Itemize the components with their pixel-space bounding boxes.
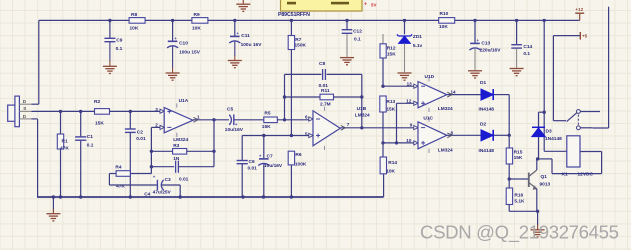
- svg-text:C9: C9: [116, 37, 122, 43]
- svg-text:P89C51RFFN: P89C51RFFN: [278, 12, 310, 18]
- svg-text:R4: R4: [115, 165, 121, 171]
- svg-text:1N: 1N: [173, 156, 180, 162]
- svg-text:R15: R15: [514, 150, 523, 156]
- svg-text:LM324: LM324: [355, 112, 370, 118]
- svg-text:C10: C10: [179, 40, 188, 46]
- svg-text:10K: 10K: [386, 169, 395, 175]
- svg-text:R7: R7: [295, 37, 301, 43]
- svg-text:0.1: 0.1: [87, 143, 94, 149]
- svg-text:15K: 15K: [386, 106, 395, 112]
- svg-text:9013: 9013: [540, 181, 551, 187]
- svg-text:100K: 100K: [295, 161, 307, 167]
- svg-text:1N4148: 1N4148: [545, 136, 562, 142]
- svg-text:7: 7: [347, 122, 350, 127]
- svg-text:47u/25V: 47u/25V: [153, 190, 172, 196]
- svg-text:C7: C7: [267, 153, 273, 159]
- svg-text:5.1v: 5.1v: [413, 43, 423, 49]
- svg-text:R9: R9: [194, 12, 200, 18]
- svg-text:47K: 47K: [60, 146, 69, 152]
- svg-text:R10: R10: [440, 11, 449, 17]
- svg-text:10K: 10K: [192, 26, 201, 32]
- svg-text:R3: R3: [173, 143, 179, 149]
- svg-text:S: S: [23, 106, 26, 111]
- svg-text:LM324: LM324: [438, 106, 453, 112]
- svg-text:IN4148: IN4148: [479, 106, 495, 112]
- svg-text:+: +: [364, 2, 367, 8]
- svg-text:C8: C8: [319, 61, 325, 67]
- svg-text:6: 6: [305, 114, 308, 119]
- svg-text:C1: C1: [87, 134, 93, 140]
- svg-text:10u/16V: 10u/16V: [264, 163, 283, 169]
- svg-text:100u 15V: 100u 15V: [179, 49, 201, 55]
- svg-text:ZD1: ZD1: [413, 34, 422, 40]
- svg-text:K1: K1: [562, 171, 568, 177]
- svg-text:LM324: LM324: [173, 137, 188, 143]
- svg-text:10: 10: [406, 138, 412, 143]
- svg-text:+12: +12: [575, 7, 583, 12]
- svg-text:15K: 15K: [262, 124, 271, 130]
- svg-text:CSDN @Q_2193276455: CSDN @Q_2193276455: [420, 221, 619, 243]
- svg-text:Q1: Q1: [541, 174, 548, 180]
- svg-text:+: +: [235, 122, 238, 127]
- svg-text:C12: C12: [353, 29, 362, 35]
- svg-text:R16: R16: [514, 192, 523, 198]
- svg-text:2: 2: [155, 122, 158, 127]
- svg-text:+: +: [174, 36, 177, 41]
- svg-text:LM324: LM324: [438, 147, 453, 153]
- svg-text:3: 3: [155, 107, 158, 112]
- svg-text:2.7M: 2.7M: [320, 101, 331, 107]
- svg-text:0.01: 0.01: [136, 136, 146, 142]
- svg-text:12VDC: 12VDC: [578, 171, 594, 177]
- svg-text:R11: R11: [321, 88, 330, 94]
- svg-text:15K: 15K: [387, 52, 396, 58]
- svg-text:9: 9: [410, 123, 413, 128]
- svg-text:C6: C6: [249, 159, 255, 165]
- svg-text:0.1: 0.1: [116, 46, 123, 52]
- svg-text:D2: D2: [480, 122, 486, 128]
- svg-text:15K: 15K: [514, 155, 523, 161]
- svg-text:R2: R2: [94, 99, 100, 105]
- svg-text:150K: 150K: [295, 43, 307, 49]
- svg-text:D1: D1: [480, 80, 486, 86]
- svg-text:R14: R14: [388, 160, 397, 166]
- svg-text:+: +: [153, 174, 156, 179]
- svg-text:5.1K: 5.1K: [514, 198, 525, 204]
- svg-text:0.01: 0.01: [179, 176, 189, 182]
- svg-text:D3: D3: [546, 128, 552, 134]
- svg-text:C5: C5: [227, 106, 233, 112]
- svg-text:R12: R12: [387, 45, 396, 51]
- svg-text:R5: R5: [264, 111, 270, 117]
- svg-text:+: +: [259, 153, 262, 158]
- svg-text:C2: C2: [137, 129, 143, 135]
- svg-text:C14: C14: [523, 44, 532, 50]
- svg-text:+5: +5: [582, 34, 588, 39]
- svg-text:R8: R8: [131, 12, 137, 18]
- svg-text:10K: 10K: [439, 24, 448, 30]
- svg-text:10K: 10K: [130, 26, 139, 32]
- svg-text:0.1: 0.1: [354, 37, 361, 43]
- svg-text:220u/16V: 220u/16V: [480, 48, 502, 54]
- svg-text:10u/16V: 10u/16V: [225, 127, 244, 133]
- svg-text:0.01: 0.01: [248, 166, 258, 172]
- svg-text:U1D: U1D: [425, 74, 435, 80]
- svg-text:15K: 15K: [95, 121, 104, 127]
- svg-text:C3: C3: [165, 177, 171, 183]
- svg-text:5V: 5V: [371, 3, 376, 8]
- svg-text:+: +: [236, 31, 239, 36]
- svg-text:0.1: 0.1: [523, 51, 530, 57]
- svg-text:12: 12: [406, 99, 412, 104]
- svg-text:R6: R6: [295, 152, 301, 158]
- svg-text:C13: C13: [481, 41, 490, 47]
- svg-text:R13: R13: [386, 99, 395, 105]
- svg-text:13: 13: [407, 82, 413, 87]
- svg-text:C11: C11: [241, 33, 250, 39]
- svg-text:IN4148: IN4148: [479, 148, 495, 154]
- svg-text:U1C: U1C: [423, 116, 433, 122]
- svg-text:1: 1: [197, 114, 200, 119]
- svg-text:47K: 47K: [116, 183, 125, 189]
- svg-text:R1: R1: [62, 139, 68, 145]
- svg-text:U1A: U1A: [179, 98, 189, 104]
- svg-text:C4: C4: [144, 191, 150, 197]
- svg-text:+: +: [476, 38, 479, 43]
- svg-text:100u 16V: 100u 16V: [241, 42, 263, 48]
